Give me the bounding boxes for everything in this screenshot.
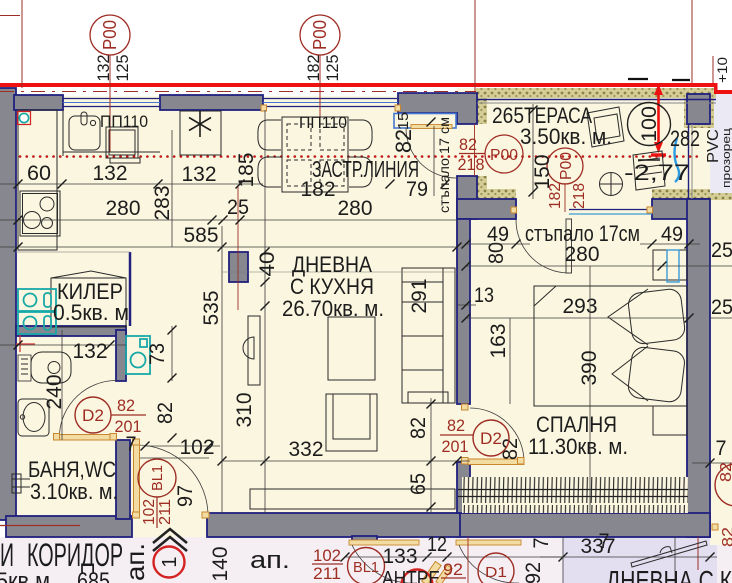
wall bathroom top — [16, 326, 126, 336]
apt2 door leaf a — [349, 540, 419, 545]
window dining PP110 — [263, 99, 398, 107]
dim vline x431 — [430, 398, 432, 513]
svg-text:102: 102 — [313, 546, 341, 565]
svg-text:390: 390 — [578, 351, 601, 386]
partition kiler — [129, 252, 132, 326]
dim bedroom hline y266 — [466, 265, 710, 267]
svg-text:PVC: PVC — [705, 129, 722, 163]
red construction line top — [0, 83, 717, 87]
bath sink — [18, 399, 49, 436]
cyan box bedroom wall — [667, 250, 679, 282]
crimson grid vertical x320 — [319, 55, 321, 128]
dim row kitchen y184 — [0, 183, 263, 185]
wall living-bedroom lower — [457, 462, 470, 513]
crimson grid vertical x692 — [691, 0, 693, 83]
svg-text:332: 332 — [289, 438, 324, 461]
bed — [534, 286, 687, 406]
svg-text:182: 182 — [304, 55, 323, 82]
crimson line terrace door face — [474, 124, 476, 176]
svg-text:5кв.м.: 5кв.м. — [0, 568, 56, 583]
neighbour window sill diagonal — [631, 541, 707, 567]
crimson grid vertical x22 — [21, 0, 23, 88]
svg-text:60: 60 — [27, 162, 51, 185]
svg-text:25: 25 — [227, 196, 249, 219]
svg-text:82: 82 — [117, 396, 135, 415]
door D2 bedroom arc — [470, 408, 524, 462]
svg-text:218: 218 — [458, 155, 485, 174]
kitchen vent mark — [18, 112, 31, 125]
wall top kitchen segment a — [14, 95, 63, 110]
svg-text:ПП110: ПП110 — [299, 113, 347, 132]
dim vline x563 bottom — [562, 537, 564, 583]
kitchen cooktop — [20, 191, 60, 236]
svg-text:ап.: ап. — [120, 543, 150, 581]
dim vline x172 — [171, 130, 173, 247]
svg-text:7: 7 — [716, 437, 727, 460]
kitchen fridge asterisk — [180, 111, 221, 155]
insulation around top right column — [684, 88, 714, 128]
door D2 bedroom jambs — [462, 404, 469, 410]
bubble P00 terrace A — [485, 135, 523, 173]
wall terrace column top right — [687, 94, 710, 124]
nightstand top — [653, 250, 687, 280]
svg-text:25: 25 — [711, 239, 732, 262]
svg-text:585: 585 — [184, 224, 219, 247]
svg-text:82: 82 — [407, 417, 430, 439]
crimson axis bottom right — [697, 537, 699, 570]
bubble D2 bedroom — [473, 420, 509, 456]
svg-text:310: 310 — [233, 393, 256, 428]
crimson grid vertical x475 — [474, 0, 476, 93]
red level arrow terrace — [657, 84, 660, 150]
partial red circle right edge — [715, 464, 732, 506]
terrace parapet right — [688, 124, 690, 199]
wall living-bedroom upper — [457, 219, 470, 404]
svg-text:25: 25 — [711, 296, 732, 319]
svg-text:49: 49 — [661, 223, 683, 246]
bubble D1 apt2 — [478, 553, 514, 583]
crimson axis bottom left wall — [0, 525, 80, 527]
svg-text:185: 185 — [235, 153, 258, 188]
right strip lavender top — [710, 94, 732, 200]
bubble 100 red — [628, 103, 671, 146]
svg-text:Р00: Р00 — [490, 147, 518, 164]
tan jambs bedroom balcony — [511, 207, 517, 213]
svg-text:26.70кв. м.: 26.70кв. м. — [282, 296, 384, 321]
svg-text:82: 82 — [447, 416, 465, 435]
svg-text:D1: D1 — [485, 564, 507, 581]
wall bedroom right — [687, 199, 710, 537]
door D2 bedroom leaf — [468, 459, 524, 465]
pillar living room — [229, 252, 248, 282]
red dotted zastr line — [20, 155, 698, 158]
wardrobe hatch — [462, 477, 688, 513]
insulation wall right of living-terrace wall — [477, 93, 487, 124]
wall living bottom — [207, 513, 460, 537]
svg-text:7: 7 — [599, 530, 610, 553]
wall bedroom top right segment — [652, 199, 707, 219]
grid bubble P00 no1 — [90, 15, 130, 82]
dim row dining y184 — [386, 180, 395, 189]
sofa — [402, 268, 455, 403]
svg-text:ДНЕВНА С К: ДНЕВНА С К — [606, 565, 732, 583]
neighbour room lavender bottom right — [563, 537, 717, 583]
insulation above bedroom top wall right — [652, 189, 710, 199]
svg-text:280: 280 — [338, 197, 373, 220]
coffee table — [328, 317, 375, 380]
window bedroom balcony — [569, 209, 652, 211]
dim bathroom 132 — [0, 344, 126, 346]
cyan drain pipe terrace — [675, 138, 680, 182]
svg-text:7: 7 — [530, 538, 553, 549]
svg-text:240: 240 — [43, 375, 66, 410]
svg-text:102: 102 — [180, 436, 215, 459]
apt2 entry slanted leafs — [422, 561, 441, 583]
svg-text:291: 291 — [408, 279, 431, 314]
svg-text:82: 82 — [718, 462, 732, 482]
svg-text:125: 125 — [323, 55, 342, 82]
svg-text:132: 132 — [73, 340, 108, 363]
svg-text:D2: D2 — [480, 429, 502, 448]
tan jambs right edge — [712, 524, 718, 530]
svg-text:ПП110: ПП110 — [100, 112, 148, 131]
terrace chair a — [587, 107, 624, 147]
kitchen counter — [18, 110, 57, 250]
svg-text:1: 1 — [159, 556, 181, 567]
svg-text:218: 218 — [571, 183, 588, 209]
terrace table round — [600, 173, 623, 196]
wall stub below living bottom — [352, 536, 377, 544]
svg-text:11.30кв. м.: 11.30кв. м. — [528, 434, 628, 459]
bubble apartment 2 partial — [402, 570, 433, 583]
wall bathroom right upper — [116, 330, 126, 381]
bubble BL1 apt2 — [348, 548, 385, 583]
crimson grid vertical x713 — [712, 56, 714, 83]
tan jambs dining window — [261, 105, 267, 111]
svg-text:Р00: Р00 — [310, 20, 330, 50]
floor living+kitchen — [16, 96, 460, 526]
wall living-terrace below door — [457, 176, 477, 219]
svg-text:80: 80 — [485, 242, 508, 264]
svg-text:BL1: BL1 — [353, 559, 379, 576]
svg-text:201: 201 — [442, 437, 469, 456]
svg-text:201: 201 — [115, 417, 142, 436]
svg-text:82: 82 — [720, 527, 732, 547]
dim 102 97 nook — [145, 445, 220, 447]
bubble D2 bathroom — [75, 397, 111, 433]
svg-text:Р00: Р00 — [100, 20, 120, 50]
insulation above bedroom top wall left — [477, 189, 516, 199]
door terrace living leaf blue — [394, 114, 456, 129]
terrace parapet top — [477, 99, 716, 101]
chevron entry — [153, 529, 187, 543]
bed pillow bottom — [627, 346, 686, 403]
svg-text:3.50кв. м.: 3.50кв. м. — [520, 124, 612, 149]
svg-text:65: 65 — [407, 473, 430, 495]
crimson pillar axis — [237, 185, 239, 310]
black line above red — [628, 78, 648, 80]
svg-text:82: 82 — [391, 129, 416, 153]
bubble apartment 1 — [154, 547, 185, 578]
svg-text:280: 280 — [106, 197, 141, 220]
kitchen cabinet box — [106, 127, 138, 158]
svg-text:211: 211 — [157, 499, 174, 525]
dim row 585 y247 — [0, 246, 457, 248]
dim row kitchen y220 — [0, 219, 457, 221]
svg-text:ап.: ап. — [250, 547, 290, 574]
svg-text:280: 280 — [565, 243, 600, 266]
svg-text:140: 140 — [209, 547, 232, 582]
floor right strip — [710, 200, 732, 545]
dim bedroom hline y318 — [466, 317, 689, 319]
svg-text:92: 92 — [522, 562, 545, 583]
svg-text:293: 293 — [563, 295, 598, 318]
svg-text:73: 73 — [146, 343, 169, 365]
svg-text:100: 100 — [638, 106, 661, 142]
door bedroom balcony leaf — [566, 219, 572, 273]
dining table — [282, 117, 348, 192]
washer stack kiler — [18, 289, 56, 334]
wall top kitchen segment b — [160, 95, 263, 110]
dining chairs right — [349, 120, 372, 150]
kitchen sink — [69, 116, 100, 150]
svg-text:283: 283 — [151, 186, 174, 221]
tv board bottom — [250, 489, 455, 509]
svg-text:13: 13 — [474, 284, 494, 307]
svg-text:D2: D2 — [82, 406, 104, 425]
crimson corner line top left — [0, 15, 20, 17]
svg-text:ЗАСТР.ЛИНИЯ: ЗАСТР.ЛИНИЯ — [312, 156, 419, 182]
svg-text:82: 82 — [154, 402, 177, 424]
svg-text:282: 282 — [670, 126, 700, 151]
wall top living L-shape — [398, 93, 477, 124]
svg-text:685: 685 — [77, 568, 110, 583]
dim hline living y461 — [222, 460, 470, 462]
svg-text:211: 211 — [313, 564, 341, 583]
bath radiator — [12, 474, 21, 493]
svg-text:82: 82 — [499, 438, 522, 460]
svg-text:40: 40 — [256, 252, 279, 277]
svg-text:BL1: BL1 — [149, 465, 166, 491]
door terrace living arc — [406, 128, 456, 178]
svg-text:3.10кв. м.: 3.10кв. м. — [30, 479, 118, 504]
dim vline x222 — [221, 226, 223, 513]
crimson terrace door axis — [564, 183, 566, 212]
floor bedroom — [460, 199, 710, 524]
door bedroom balcony arc — [516, 220, 569, 273]
corridor background bottom — [0, 537, 732, 583]
svg-text:стъпало 17 см: стъпало 17 см — [436, 117, 452, 213]
svg-text:133: 133 — [383, 545, 418, 568]
dim vline bedroom x510 — [509, 318, 511, 404]
svg-text:163: 163 — [487, 324, 510, 359]
floor terrace — [457, 88, 710, 200]
toilet — [18, 352, 71, 383]
door D2 bathroom arc — [60, 381, 117, 435]
insulation right wall strip — [687, 193, 732, 200]
dim vline x434 dining — [433, 126, 435, 196]
armchair — [326, 394, 377, 451]
svg-text:535: 535 — [200, 291, 223, 326]
tv unit left wall — [248, 316, 260, 385]
washer bathroom right — [126, 336, 150, 374]
wall nook — [116, 440, 130, 519]
wall bathroom bottom — [6, 516, 132, 537]
apt2 door arc a — [352, 545, 417, 583]
svg-text:125: 125 — [113, 55, 132, 82]
insulation terrace top — [476, 88, 716, 98]
svg-text:7: 7 — [126, 433, 137, 456]
crimson grid vertical x110 — [109, 55, 111, 152]
grid bubble P00 no2 — [300, 15, 340, 82]
svg-text:-2,77: -2,77 — [624, 160, 690, 185]
dim 13 — [458, 304, 476, 306]
svg-text:прозорец: прозорец — [721, 127, 732, 188]
crimson marks bathroom left — [16, 343, 35, 345]
svg-text:стъпало 17см: стъпало 17см — [525, 221, 640, 246]
svg-text:+10: +10 — [714, 57, 730, 83]
wall bedroom bottom — [457, 513, 710, 537]
wall left outer — [0, 88, 16, 520]
door BL1 entry arc — [137, 445, 208, 516]
svg-text:102: 102 — [141, 499, 158, 525]
svg-text:АНТРЕ: АНТРЕ — [382, 568, 440, 583]
window kitchen PP110 — [63, 99, 160, 107]
bed pillow top — [627, 288, 686, 345]
bed blanket folds — [608, 289, 648, 345]
door D2 bathroom jambs — [54, 434, 60, 441]
door D2 bathroom leaf — [59, 435, 116, 441]
dim 40 pillar — [261, 248, 270, 257]
apt2 door arc b — [459, 545, 519, 583]
crimson axis dashed top wall — [0, 91, 476, 93]
dining chairs left — [258, 120, 281, 150]
dim vline bedroom x590 — [589, 266, 591, 513]
svg-text:15: 15 — [395, 112, 412, 130]
door BL1 entry leaf — [134, 444, 140, 516]
door BL1 jambs — [133, 439, 140, 445]
svg-text:92: 92 — [443, 560, 463, 579]
bubble P00 terrace B — [547, 148, 583, 184]
svg-text:132: 132 — [94, 55, 113, 82]
svg-text:Р00: Р00 — [558, 152, 575, 180]
svg-text:0.5кв. м: 0.5кв. м — [53, 300, 129, 325]
svg-text:150: 150 — [531, 155, 554, 190]
nightstand bottom — [653, 406, 687, 435]
svg-text:132: 132 — [93, 162, 128, 185]
svg-text:12: 12 — [427, 533, 447, 556]
floor entry nook below — [130, 513, 210, 537]
wall bedroom top left segment — [457, 199, 516, 219]
apt2 door leaf b — [456, 540, 521, 545]
terrace chair b — [633, 151, 665, 190]
svg-text:82: 82 — [459, 135, 477, 154]
door terrace living tan strip — [411, 125, 452, 129]
kiler shelf box — [51, 278, 126, 327]
svg-text:132: 132 — [182, 163, 217, 186]
dim vline x265 — [264, 110, 266, 513]
bubble BL1 nook — [138, 459, 176, 497]
svg-text:97: 97 — [174, 485, 197, 507]
